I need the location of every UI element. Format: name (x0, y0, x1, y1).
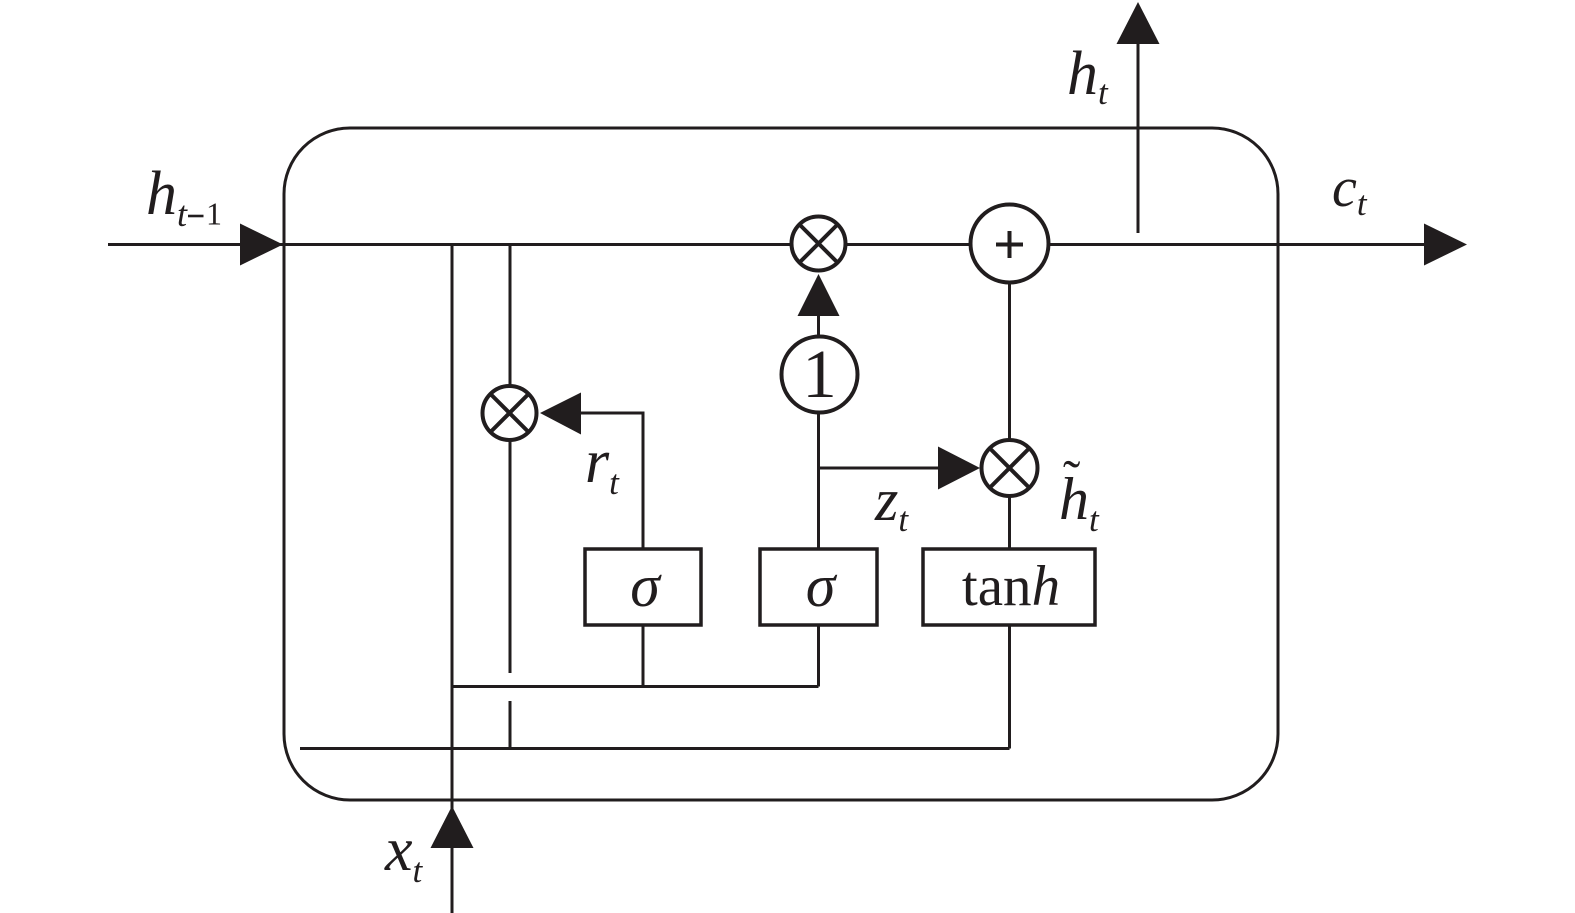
wire: r_t feedback from sigma1 top (580, 413, 643, 549)
wire: x_t vertical line (line A) (451, 245, 454, 913)
box tanh (candidate activation) (923, 549, 1095, 625)
wire: from top multiplier arrow base through 1-circle to sigma2 (817, 314, 820, 549)
wire: main horizontal h_{t-1} to c_t line (108, 243, 1428, 246)
arrowhead: c_t output (1424, 224, 1467, 266)
arrowhead: h_t output (1117, 2, 1160, 44)
wire: adder down through candidate multiplier to tanh (1008, 280, 1011, 549)
wire: tanh bottom stub (1008, 625, 1011, 749)
wire: sigma2 bottom stub (817, 625, 820, 687)
svg-text:˜: ˜ (1063, 451, 1080, 508)
multiplier circle left (reset gate) (483, 386, 537, 440)
box sigma1 (reset gate) (585, 549, 701, 625)
multiplier circle top (element-wise product on state line) (792, 217, 846, 271)
svg-text:ht: ht (1067, 40, 1109, 112)
adder circle (971, 205, 1049, 283)
wire: h_t output vertical (1137, 43, 1140, 233)
wire: line B upper segment (main line down to reset multiplier and below, with hop) (509, 245, 512, 674)
arrowhead: z_t into candidate multiplier (938, 447, 980, 490)
arrowhead: r_t into reset multiplier (540, 393, 581, 435)
svg-text:σ: σ (630, 553, 662, 619)
multiplier circle right (candidate) (982, 440, 1038, 496)
svg-text:xt: xt (384, 816, 424, 890)
svg-text:1: 1 (802, 336, 837, 412)
svg-text:σ: σ (806, 553, 838, 619)
wire: z_t branch to candidate multiplier (819, 467, 941, 470)
svg-text:tanh: tanh (962, 555, 1060, 618)
wire: input bus (wire1) from line A to sigma2 stub (452, 685, 819, 688)
wire: sigma1 bottom stub (642, 625, 645, 687)
box sigma2 (update gate) (760, 549, 877, 625)
svg-text:ht: ht (146, 160, 188, 234)
arrowhead: x_t into cell (431, 806, 474, 848)
arrowhead: from 1-circle up into top multiplier (798, 274, 840, 316)
wire: line B lower segment after hop (509, 701, 512, 749)
svg-text:1: 1 (206, 196, 222, 232)
cell boundary rounded rectangle (284, 128, 1278, 800)
constant 1 circle (782, 336, 858, 413)
svg-text:ct: ct (1332, 157, 1368, 223)
arrowhead: h_{t-1} into cell (240, 224, 283, 266)
wire: candidate bus (wire2) (300, 747, 1010, 750)
